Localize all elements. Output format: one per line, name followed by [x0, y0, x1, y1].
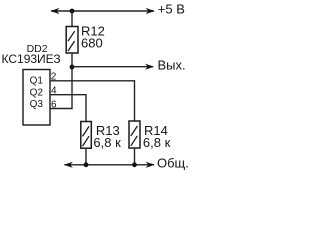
- svg-text:Q1: Q1: [30, 76, 44, 87]
- wire R14 bottom lead: [134, 148, 136, 165]
- svg-text:680: 680: [81, 36, 103, 51]
- IC DD2 box (counter KS193IE3): [23, 70, 50, 126]
- svg-text:Q2: Q2: [30, 87, 44, 98]
- label R12 value 680: [81, 24, 105, 51]
- node junction R13 common: [84, 162, 89, 167]
- svg-text:Общ.: Общ.: [157, 155, 189, 170]
- svg-text:6,8 к: 6,8 к: [93, 135, 121, 150]
- resistor R12 body: [66, 27, 78, 54]
- wire +5V top rail: [51, 10, 154, 12]
- resistor R13 body: [81, 122, 92, 149]
- svg-text:Вых.: Вых.: [158, 57, 186, 72]
- svg-text:Q3: Q3: [30, 99, 44, 110]
- svg-text:+5 В: +5 В: [158, 2, 185, 17]
- arrow to Vyh label: [145, 64, 154, 70]
- node junction output (R12 / Q3 / Vyh): [70, 65, 75, 70]
- svg-text:КС193ИЕЗ: КС193ИЕЗ: [2, 52, 61, 66]
- label R13 value 6,8 k: [93, 123, 121, 150]
- wire common bottom rail: [64, 164, 154, 166]
- wire pin2 Q1 to R14: [50, 81, 135, 121]
- wire R12 bottom lead: [71, 53, 73, 67]
- resistor R14 body: [129, 121, 140, 148]
- arrow to +5 V label: [146, 8, 155, 14]
- node junction top (R12 to +5V rail): [70, 9, 75, 14]
- arrow to Obshch label: [146, 162, 155, 168]
- label R14 value 6,8 k: [143, 123, 171, 150]
- wire R12 top lead: [71, 11, 73, 27]
- wire output to Vyh arrow: [72, 66, 153, 68]
- wire pin4 Q2 to R13: [50, 95, 86, 122]
- svg-text:6,8 к: 6,8 к: [143, 135, 171, 150]
- wire R13 bottom lead: [85, 148, 87, 165]
- wire pin6 Q3 up to output node: [50, 67, 72, 109]
- arrow left end of +5V rail: [51, 8, 60, 14]
- arrow left end of common rail: [64, 162, 73, 168]
- node junction R14 common: [132, 162, 137, 167]
